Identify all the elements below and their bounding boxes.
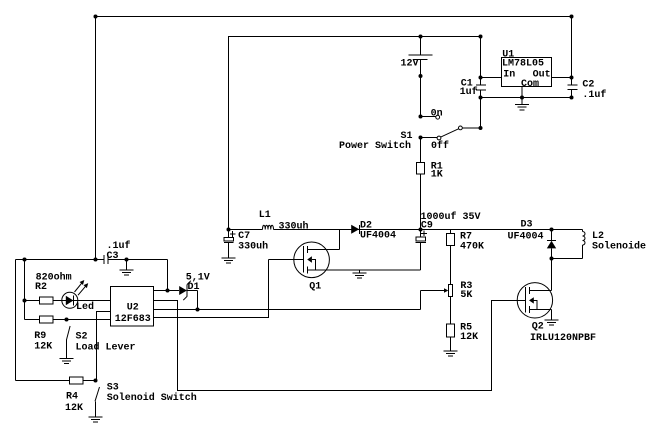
ground under R5 (450, 337, 452, 351)
svg-text:In: In (503, 69, 515, 80)
IC U2 12F683 (111, 287, 154, 327)
diode D2 UF4004 (351, 225, 359, 234)
wire U1 Out row (552, 77, 572, 79)
svg-text:D1: D1 (188, 282, 200, 293)
node C1 bottom (479, 96, 483, 100)
wire U2 pin right4 to Q1 gate (154, 260, 269, 318)
node C1 branch corner (479, 35, 483, 39)
svg-text:S3: S3 (107, 382, 119, 393)
svg-text:12F683: 12F683 (115, 314, 151, 325)
svg-text:Power Switch: Power Switch (339, 140, 411, 152)
svg-text:LM78L05: LM78L05 (502, 58, 544, 69)
resistor R7 470K (450, 230, 452, 234)
op-amp U1 LM78L05 regulator box (502, 58, 552, 87)
wire R3 wiper (421, 290, 445, 292)
capacitor C1 1uf (476, 84, 486, 86)
inductor L2 Solenoide (582, 230, 584, 232)
wire U2 pin right3 row (154, 309, 421, 311)
node left rail T (23, 258, 27, 262)
wire Q1 gate (269, 259, 304, 261)
svg-text:12K: 12K (460, 332, 478, 343)
potentiometer R3 5K (449, 285, 453, 297)
svg-text:S2: S2 (76, 332, 88, 343)
svg-text:1uf: 1uf (460, 86, 478, 98)
svg-text:C9: C9 (421, 220, 433, 231)
diode D3 UF4004 (551, 230, 553, 241)
wire U2 pin right2 loop to Q2 gate (154, 301, 526, 391)
node C2 bottom (570, 96, 574, 100)
svg-text:Solenoide: Solenoide (592, 241, 646, 253)
node Out junction (570, 76, 574, 80)
svg-text:Led: Led (76, 301, 94, 313)
transistor Q2 IRLU120NPBF (517, 283, 552, 318)
node C1-In junction (479, 76, 483, 80)
wire C3 to pin1 drop (167, 260, 169, 291)
svg-text:Q2: Q2 (532, 321, 544, 332)
wire U2 pin left2 (97, 312, 111, 381)
capacitor C3 .1uf (103, 255, 105, 264)
switch S2 Load Lever (65, 318, 69, 322)
svg-text:330uh: 330uh (238, 240, 268, 252)
wire C3 row (16, 259, 105, 261)
node top-right corner (570, 15, 574, 19)
svg-text:12K: 12K (34, 342, 52, 353)
zener diode D1 5.1V (154, 290, 180, 292)
wire main bus (229, 229, 263, 231)
capacitor C7 330uh polarized (228, 230, 230, 238)
resistor R4 12K (16, 380, 70, 382)
svg-text:Q1: Q1 (309, 282, 321, 293)
svg-text:R9: R9 (34, 331, 46, 342)
ground on source rail (359, 270, 361, 273)
resistor R9 12K (25, 319, 40, 321)
wire second left rail (24, 260, 26, 320)
svg-text:R4: R4 (66, 391, 78, 402)
wire top rail (96, 17, 572, 260)
node Com junction (520, 96, 524, 100)
node long rail bottom (94, 258, 98, 262)
switch S1 lever and common (441, 129, 459, 137)
svg-text:D3: D3 (521, 219, 533, 230)
svg-text:0ff: 0ff (431, 140, 449, 152)
svg-text:U2: U2 (127, 303, 139, 314)
wire C1 vertical branch (480, 37, 482, 86)
wire Q1 source rail (307, 269, 420, 271)
transistor Q1 (294, 242, 330, 278)
ground under Q2 source (551, 310, 553, 320)
wire U1 In row (481, 77, 502, 79)
svg-text:C3: C3 (107, 251, 119, 262)
switch S3 Solenoid Switch (94, 379, 98, 383)
switch S1 Off terminal (421, 137, 438, 139)
svg-text:L1: L1 (259, 210, 271, 221)
svg-text:D2: D2 (360, 220, 372, 231)
svg-text:.1uf: .1uf (107, 240, 131, 252)
wire Com pin (521, 87, 523, 98)
wire right vertical to C2 (571, 17, 573, 86)
ground under U1 (521, 98, 523, 105)
svg-text:.1uf: .1uf (582, 89, 606, 101)
inductor L1 330uh (263, 225, 274, 229)
battery B1 12V (420, 37, 422, 56)
capacitor C2 .1uf (568, 84, 578, 86)
resistor R5 12K (447, 324, 455, 337)
ground under C7 (228, 242, 230, 258)
node bus D3 (550, 228, 554, 232)
node bus left (227, 228, 231, 232)
wire left rail (15, 260, 17, 381)
svg-text:IRLU120NPBF: IRLU120NPBF (530, 333, 596, 344)
ground on C3 row (125, 258, 129, 262)
svg-text:5K: 5K (460, 290, 472, 301)
svg-text:Load Lever: Load Lever (76, 341, 136, 353)
LED (53, 300, 62, 302)
svg-text:330uh: 330uh (279, 220, 309, 232)
resistor R2 820ohm (25, 300, 40, 302)
svg-text:0n: 0n (431, 109, 443, 120)
svg-text:C7: C7 (238, 231, 250, 242)
svg-text:470K: 470K (460, 241, 484, 252)
svg-text:R2: R2 (35, 282, 47, 293)
node top-left corner (94, 15, 98, 19)
svg-text:L2: L2 (592, 231, 604, 242)
svg-text:1K: 1K (431, 170, 443, 181)
svg-text:12K: 12K (65, 403, 83, 414)
wire ground row under U1 (481, 97, 572, 99)
svg-text:UF4004: UF4004 (508, 231, 544, 242)
svg-text:UF4004: UF4004 (360, 231, 396, 242)
svg-text:Com: Com (521, 79, 539, 90)
wire second rail (229, 37, 481, 230)
resistor R1 1K (420, 138, 422, 163)
svg-text:Solenoid Switch: Solenoid Switch (107, 392, 197, 404)
svg-text:12V: 12V (401, 59, 419, 70)
switch S1 On terminal (421, 116, 436, 118)
node bus C9 (419, 228, 423, 232)
node battery tap (419, 35, 423, 39)
